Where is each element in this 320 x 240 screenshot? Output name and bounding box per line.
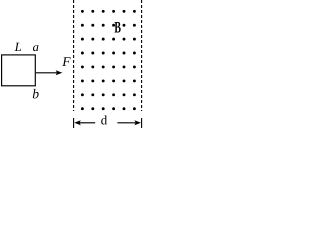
wire: force arrow shaft from loop right edge <box>36 72 57 74</box>
magnetic field dots (B out of page) <box>81 10 136 110</box>
dimension d: left arrowhead <box>74 120 81 125</box>
dimension d: right end tick <box>141 118 143 128</box>
label B (magnetic field) <box>115 22 121 32</box>
dimension d: left arrow shaft <box>80 122 96 124</box>
node a (top-right corner) <box>33 45 38 51</box>
dimension d: right arrow shaft <box>117 122 135 124</box>
label L (loop side length) <box>15 43 22 51</box>
right field boundary (dashed line) <box>141 0 143 111</box>
dimension d: right arrowhead <box>134 120 141 125</box>
conducting loop (rectangle) <box>2 55 36 86</box>
force arrowhead <box>56 70 63 75</box>
label d (field region width) <box>101 115 107 124</box>
label F (applied force) <box>62 57 70 66</box>
dimension d: left end tick <box>73 118 75 128</box>
node b (bottom-right corner) <box>33 89 39 99</box>
left field boundary (dashed line) <box>73 0 75 111</box>
